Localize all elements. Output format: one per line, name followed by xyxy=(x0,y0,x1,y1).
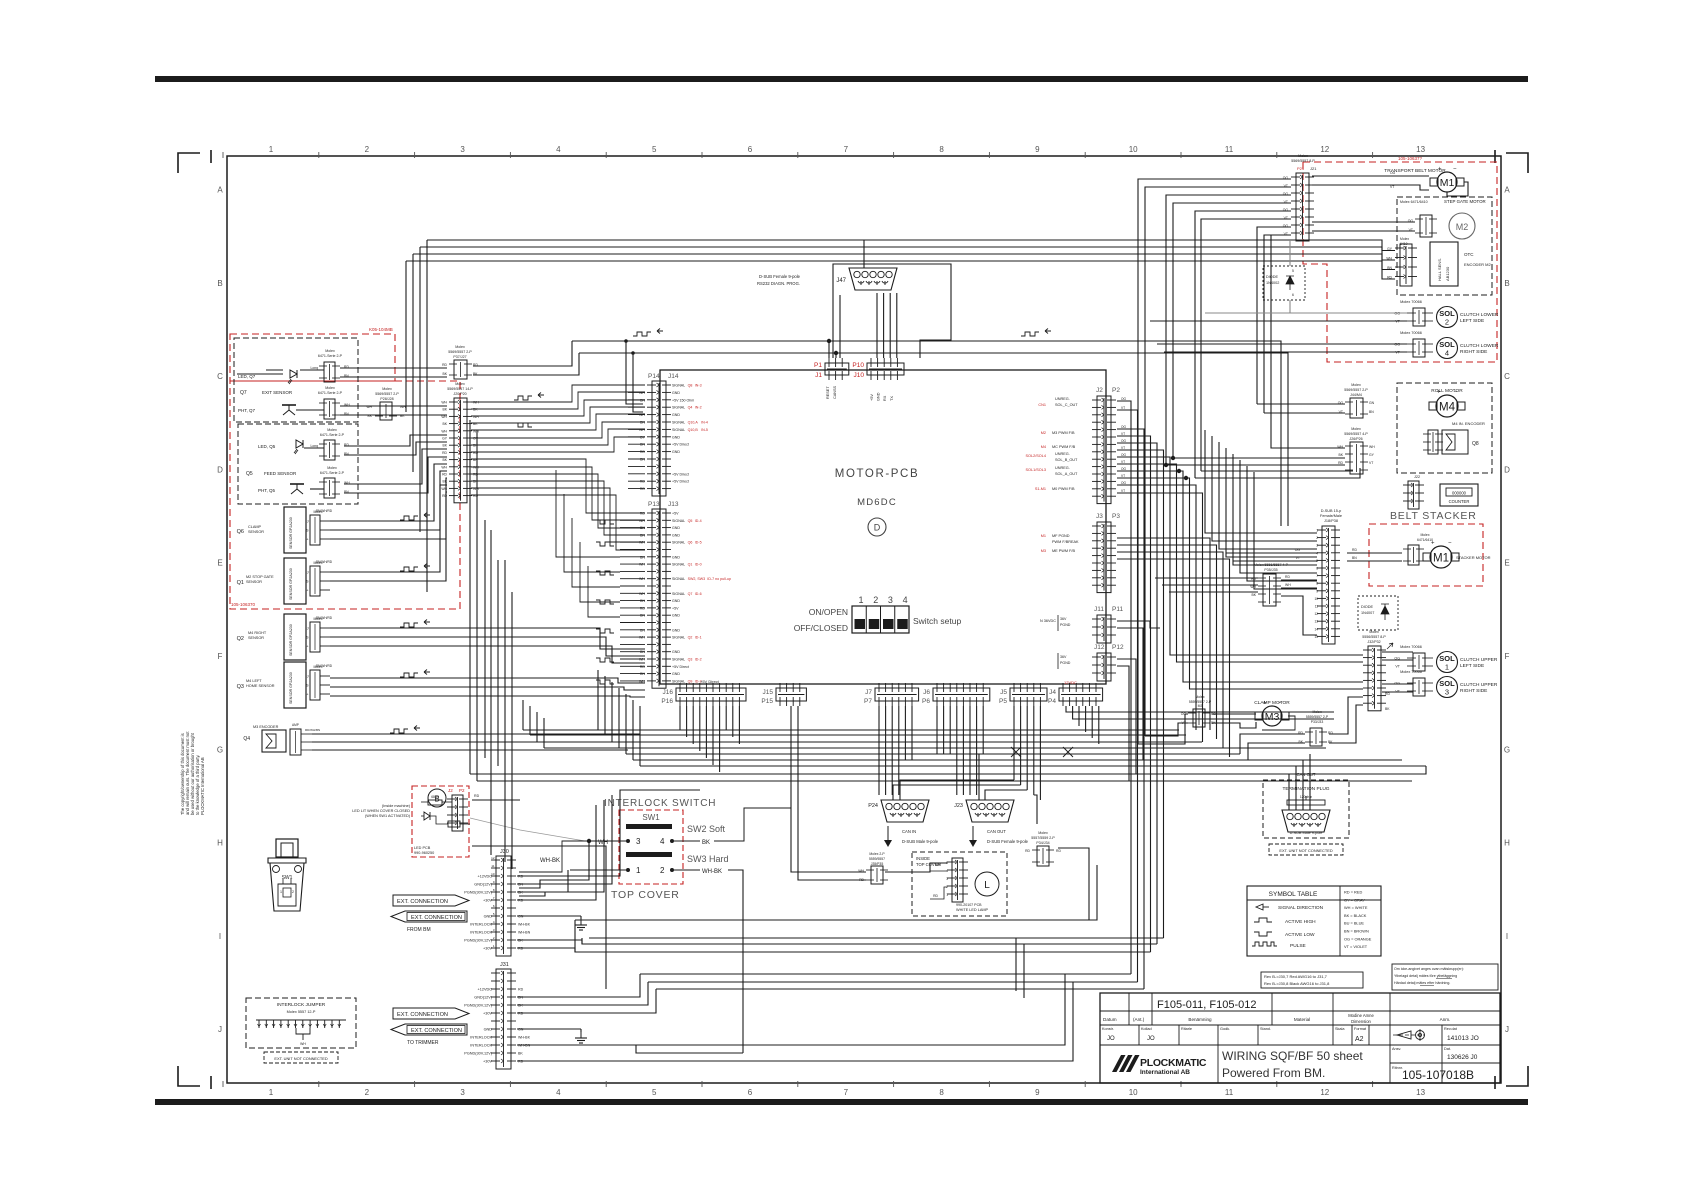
svg-text:RD: RD xyxy=(473,473,478,477)
svg-text:BK = BLACK: BK = BLACK xyxy=(1344,913,1367,918)
svg-text:12: 12 xyxy=(1314,612,1318,616)
ext connection arrows J31 xyxy=(393,1008,469,1019)
svg-text:SOL_C_OUT: SOL_C_OUT xyxy=(1055,403,1078,407)
svg-text:10: 10 xyxy=(1314,597,1318,601)
solenoid SOL2 xyxy=(1437,307,1458,328)
svg-text:Q10,B: Q10,B xyxy=(688,428,699,432)
title block outline xyxy=(1100,993,1500,1083)
svg-text:4: 4 xyxy=(660,837,665,846)
wire Q2 rows east xyxy=(330,628,560,640)
svg-text:Rev B->J30,7 Red AWG16 to J31,: Rev B->J30,7 Red AWG16 to J31,7 xyxy=(1264,974,1328,979)
svg-text:VT: VT xyxy=(1121,460,1125,464)
red dashed belt stacker box xyxy=(1369,524,1483,586)
wire P35 west leads xyxy=(1155,577,1258,579)
wire bus risers to J18 xyxy=(1205,430,1317,533)
svg-text:+5V Direct: +5V Direct xyxy=(672,443,689,447)
svg-text:IN-2: IN-2 xyxy=(695,406,702,410)
svg-text:3: 3 xyxy=(1445,688,1449,697)
svg-text:RD: RD xyxy=(640,512,646,516)
svg-text:SENSOR GP2A230: SENSOR GP2A230 xyxy=(289,568,293,600)
svg-text:Rev.dat: Rev.dat xyxy=(1444,1027,1458,1031)
svg-text:990-960250: 990-960250 xyxy=(414,851,434,855)
svg-text:BK: BK xyxy=(442,372,447,376)
svg-text:RD: RD xyxy=(442,473,447,477)
svg-text:Q2: Q2 xyxy=(688,636,693,640)
svg-text:I: I xyxy=(1506,932,1508,941)
wire stacker M1 leads xyxy=(1347,552,1402,554)
black dashed step gate box xyxy=(1397,197,1492,295)
svg-text:WH: WH xyxy=(639,563,645,567)
svg-text:990-20107 PCB: 990-20107 PCB xyxy=(956,903,982,907)
svg-text:WH: WH xyxy=(639,391,645,395)
svg-text:RD: RD xyxy=(640,606,646,610)
svg-text:Q3: Q3 xyxy=(237,684,244,690)
svg-text:5569/5557 8-P: 5569/5557 8-P xyxy=(1291,159,1315,163)
ext unit not connected label xyxy=(264,1052,338,1063)
svg-text:GND: GND xyxy=(672,650,680,654)
symbol table signal direction xyxy=(1256,904,1263,910)
svg-text:RD: RD xyxy=(1285,575,1290,579)
svg-text:CLUTCH LOWER: CLUTCH LOWER xyxy=(1460,343,1499,349)
svg-text:(Ant.): (Ant.) xyxy=(1133,1017,1145,1022)
svg-text:AB1230: AB1230 xyxy=(1445,266,1450,281)
svg-text:OG = ORANGE: OG = ORANGE xyxy=(1344,936,1372,941)
wire corner drops bottom right xyxy=(1015,938,1017,991)
wire CAN bus routing xyxy=(900,780,1014,800)
ground symbol J31 xyxy=(580,1032,582,1038)
svg-text:BU = BLUE: BU = BLUE xyxy=(1344,921,1364,926)
svg-text:F105-011, F105-012: F105-011, F105-012 xyxy=(1157,999,1256,1011)
svg-text:WH: WH xyxy=(441,401,447,405)
svg-text:+: + xyxy=(1263,701,1267,707)
wire J35 links xyxy=(791,868,866,872)
svg-text:5: 5 xyxy=(652,1088,657,1097)
svg-text:9: 9 xyxy=(1316,589,1318,593)
svg-text:IN-4: IN-4 xyxy=(701,421,708,425)
svg-text:WH: WH xyxy=(639,519,645,523)
svg-text:International AB: International AB xyxy=(1140,1069,1190,1076)
swedish note box xyxy=(1392,964,1498,990)
svg-text:Q6: Q6 xyxy=(237,529,244,535)
svg-text:EXT. CONNECTION: EXT. CONNECTION xyxy=(411,915,462,921)
svg-text:INTERLOCK JUMPER: INTERLOCK JUMPER xyxy=(277,1002,326,1008)
corner mark bottom-right xyxy=(1506,1066,1528,1086)
wire second bus RESET/CANSS xyxy=(572,341,1281,526)
svg-text:1: 1 xyxy=(636,866,641,875)
svg-text:BN/WH/RD: BN/WH/RD xyxy=(316,560,333,564)
corner mark top-right xyxy=(1506,153,1528,173)
svg-text:SIGNAL DIRECTION: SIGNAL DIRECTION xyxy=(1278,905,1324,911)
motor M1 transport xyxy=(1437,172,1457,192)
svg-text:J2: J2 xyxy=(448,788,453,793)
svg-text:3: 3 xyxy=(460,1088,465,1097)
svg-text:ME PWM F/B: ME PWM F/B xyxy=(1052,549,1075,553)
svg-text:ID-2: ID-2 xyxy=(695,658,702,662)
wire termination risers xyxy=(1288,774,1290,810)
svg-text:BN: BN xyxy=(640,458,645,462)
svg-text:Datum: Datum xyxy=(1103,1017,1117,1022)
svg-text:7: 7 xyxy=(844,145,849,154)
wire taps from left verticals to sensor rows xyxy=(427,367,447,369)
svg-text:ENCODER M2: ENCODER M2 xyxy=(1464,262,1491,267)
svg-text:RS232 DIAGN. PROG.: RS232 DIAGN. PROG. xyxy=(757,281,800,286)
svg-text:2: 2 xyxy=(1316,536,1318,540)
svg-text:3: 3 xyxy=(888,595,893,605)
svg-text:PGND(30V,12V): PGND(30V,12V) xyxy=(464,891,492,895)
svg-text:Ritarle: Ritarle xyxy=(1181,1027,1192,1031)
svg-text:FEED SENSOR: FEED SENSOR xyxy=(264,471,297,476)
svg-text:SW1: SW1 xyxy=(642,813,660,822)
svg-text:+5V Direct: +5V Direct xyxy=(672,472,689,476)
svg-text:6471-Serie 2-P: 6471-Serie 2-P xyxy=(320,471,345,475)
svg-text:PULSE: PULSE xyxy=(1290,943,1306,949)
svg-text:7: 7 xyxy=(1316,574,1318,578)
black dashed roll motor box xyxy=(1397,383,1492,473)
svg-text:7: 7 xyxy=(844,1088,849,1097)
svg-text:Q10,A: Q10,A xyxy=(688,421,699,425)
svg-text:SIGNAL: SIGNAL xyxy=(672,519,685,523)
svg-text:BN: BN xyxy=(1352,556,1357,560)
svg-text:Molex 70066: Molex 70066 xyxy=(1400,670,1422,674)
svg-text:VT: VT xyxy=(1121,432,1125,436)
svg-text:9: 9 xyxy=(1035,145,1040,154)
svg-text:J47: J47 xyxy=(836,278,846,284)
svg-text:J: J xyxy=(307,571,309,575)
svg-text:VT: VT xyxy=(1296,556,1300,560)
svg-text:SENSOR: SENSOR xyxy=(248,636,264,640)
svg-text:OG: OG xyxy=(1390,171,1396,175)
svg-text:2: 2 xyxy=(365,145,370,154)
corner mark bottom-left xyxy=(178,1066,200,1086)
svg-text:GND: GND xyxy=(672,672,680,676)
svg-text:Molex: Molex xyxy=(1351,383,1361,387)
svg-text:Molex: Molex xyxy=(327,428,337,432)
ground symbol J30 xyxy=(580,919,582,925)
svg-text:M3: M3 xyxy=(1041,549,1046,553)
svg-text:2: 2 xyxy=(292,890,294,894)
svg-text:GND: GND xyxy=(877,392,881,401)
svg-text:36V: 36V xyxy=(1060,655,1067,659)
wire J18 west leads OG VT xyxy=(1247,552,1317,554)
svg-text:6471-Serie 2-P: 6471-Serie 2-P xyxy=(320,433,345,437)
svg-text:J1: J1 xyxy=(815,372,822,379)
svg-text:BN: BN xyxy=(640,650,645,654)
svg-text:Stand.: Stand. xyxy=(1260,1027,1271,1031)
svg-text:M3: M3 xyxy=(1265,711,1280,723)
svg-text:12: 12 xyxy=(1320,145,1329,154)
svg-text:P1: P1 xyxy=(814,362,822,369)
svg-text:INTERLOCK: INTERLOCK xyxy=(470,1036,492,1040)
svg-text:Switch setup: Switch setup xyxy=(913,616,961,626)
wire J11 J12 stubs xyxy=(1117,621,1160,628)
svg-text:F: F xyxy=(1505,652,1510,661)
svg-text:680R: 680R xyxy=(431,795,439,799)
svg-text:M1: M1 xyxy=(1041,534,1046,538)
svg-text:RD = RED: RD = RED xyxy=(1344,890,1362,895)
svg-text:HALL SENS.: HALL SENS. xyxy=(1437,258,1442,281)
svg-text:141013 JO: 141013 JO xyxy=(1447,1035,1479,1042)
svg-text:P4: P4 xyxy=(1048,698,1056,705)
wire J20 fan to P13 xyxy=(471,459,645,513)
svg-text:P33/J33: P33/J33 xyxy=(1311,720,1324,724)
svg-text:J23: J23 xyxy=(954,803,963,809)
svg-text:G: G xyxy=(1504,745,1510,754)
svg-text:SENSOR GP2A230: SENSOR GP2A230 xyxy=(289,672,293,704)
wire mid bus left risers xyxy=(522,700,524,730)
lid pcb resistor xyxy=(428,800,442,805)
svg-text:10: 10 xyxy=(1129,145,1138,154)
svg-text:PGND(30V,12V): PGND(30V,12V) xyxy=(464,1004,492,1008)
motor-pcb board outline xyxy=(660,370,1106,684)
svg-text:(Inside machine): (Inside machine) xyxy=(382,804,411,808)
svg-text:J10: J10 xyxy=(854,372,865,379)
lid pcb led xyxy=(424,812,430,820)
svg-text:1: 1 xyxy=(946,893,948,897)
svg-text:36V: 36V xyxy=(1060,617,1067,621)
black dashed box exit sensor xyxy=(234,338,358,422)
svg-text:RD: RD xyxy=(442,363,447,367)
svg-text:+5V: +5V xyxy=(672,512,679,516)
svg-text:+: + xyxy=(306,693,308,697)
svg-text:−: − xyxy=(1453,167,1457,173)
svg-text:12VDC: 12VDC xyxy=(1064,680,1077,685)
svg-text:M0 PWM F/B: M0 PWM F/B xyxy=(1052,487,1075,491)
svg-text:RIGHT SIDE: RIGHT SIDE xyxy=(1460,349,1487,355)
wire M1 transport leads xyxy=(1312,175,1429,177)
svg-text:Molex: Molex xyxy=(327,466,337,470)
svg-text:4: 4 xyxy=(1445,349,1449,358)
wire J15 drops to J35 xyxy=(790,706,792,868)
wire J16 drops xyxy=(679,706,681,730)
svg-text:OG: OG xyxy=(1121,425,1126,429)
white led lamp xyxy=(952,858,963,902)
svg-text:E: E xyxy=(1504,559,1509,568)
svg-text:Skala: Skala xyxy=(1335,1027,1345,1031)
svg-text:BK: BK xyxy=(702,840,710,846)
svg-text:J: J xyxy=(307,627,309,631)
svg-text:5559/5557: 5559/5557 xyxy=(869,857,885,861)
svg-text:J4: J4 xyxy=(1049,689,1056,696)
diode 1N4002 box xyxy=(1263,266,1305,300)
svg-text:LED, Q7: LED, Q7 xyxy=(238,374,256,379)
svg-text:EXT. UNIT NOT CONNECTED: EXT. UNIT NOT CONNECTED xyxy=(274,1056,327,1061)
svg-text:Format: Format xyxy=(1354,1027,1367,1031)
svg-text:D-SUB Female 9-pole: D-SUB Female 9-pole xyxy=(759,274,801,279)
wire J30 right fan xyxy=(517,820,555,876)
projection symbol xyxy=(1397,1031,1411,1039)
wire P14 left stubs xyxy=(628,384,645,386)
revision circle D xyxy=(868,518,886,536)
svg-text:M4: M4 xyxy=(1041,445,1046,449)
svg-text:IN-5: IN-5 xyxy=(701,428,708,432)
svg-text:H: H xyxy=(1504,839,1510,848)
wire SW1 to J30 links xyxy=(519,843,589,888)
svg-text:BN: BN xyxy=(640,628,645,632)
svg-text:GND(12V): GND(12V) xyxy=(474,883,492,887)
wire P13 feed staircase xyxy=(556,470,620,557)
svg-text:EXIT SENSOR: EXIT SENSOR xyxy=(262,390,293,395)
svg-text:12: 12 xyxy=(1320,1088,1329,1097)
svg-text:PGND(30V,12V): PGND(30V,12V) xyxy=(464,1052,492,1056)
svg-text:ACTIVE LOW: ACTIVE LOW xyxy=(1285,932,1315,938)
svg-text:+: + xyxy=(1431,541,1435,547)
svg-text:GND: GND xyxy=(484,1028,493,1032)
svg-text:MD6DC: MD6DC xyxy=(857,497,897,508)
wire Q1 rows to J20 xyxy=(330,485,447,572)
svg-text:TO TRIMMER: TO TRIMMER xyxy=(407,1040,439,1046)
wire label WH-BK right xyxy=(674,869,700,871)
svg-text:5569/5557 14-P: 5569/5557 14-P xyxy=(447,387,473,391)
svg-text:SENSOR GP2A230: SENSOR GP2A230 xyxy=(289,624,293,656)
interlock switch SW1 physical xyxy=(276,839,298,857)
svg-text:BK: BK xyxy=(442,480,447,484)
red dashed sensor group box xyxy=(230,381,460,609)
svg-text:Godk.: Godk. xyxy=(1220,1027,1230,1031)
wire J3/P3 fan east xyxy=(1117,538,1210,730)
wire Q6 rows to J20 xyxy=(330,464,447,521)
svg-text:VT: VT xyxy=(1121,489,1125,493)
svg-text:CLAMP: CLAMP xyxy=(248,525,262,529)
svg-text:J: J xyxy=(307,520,309,524)
svg-text:LED LIT WHEN COVER CLOSED: LED LIT WHEN COVER CLOSED xyxy=(352,809,410,813)
svg-text:WHITE LED LAMP: WHITE LED LAMP xyxy=(956,908,989,912)
wire P13 left stubs xyxy=(620,512,645,514)
svg-text:Molex: Molex xyxy=(455,345,465,349)
svg-text:Ansv.: Ansv. xyxy=(1392,1047,1401,1051)
svg-text:−: − xyxy=(1278,701,1282,707)
svg-text:OFF/CLOSED: OFF/CLOSED xyxy=(794,623,848,633)
wire J31 long rails xyxy=(517,974,640,989)
wire J30 long rails xyxy=(517,948,575,952)
svg-text:(WHEN SW1 ACTIVATED): (WHEN SW1 ACTIVATED) xyxy=(365,814,411,818)
svg-text:Q9: Q9 xyxy=(688,679,693,683)
svg-text:D-SUB 15-p: D-SUB 15-p xyxy=(1321,509,1341,513)
svg-text:ACTIVE HIGH: ACTIVE HIGH xyxy=(1285,919,1316,925)
svg-text:INSIDE: INSIDE xyxy=(916,856,930,861)
svg-text:+: + xyxy=(306,645,308,649)
svg-text:OG: OG xyxy=(1121,439,1126,443)
svg-text:RIGHT SIDE: RIGHT SIDE xyxy=(1460,688,1487,694)
wire top bus left verticals xyxy=(426,240,428,592)
svg-text:AMP: AMP xyxy=(292,723,299,727)
svg-text:RD: RD xyxy=(640,487,646,491)
pulse glyphs on second bus xyxy=(633,332,651,336)
svg-text:SIGNAL: SIGNAL xyxy=(672,577,685,581)
svg-text:M2 STOP GATE: M2 STOP GATE xyxy=(246,575,274,579)
svg-text:VT: VT xyxy=(1395,665,1400,669)
wire mid bus horizontals xyxy=(523,729,1179,731)
svg-text:13: 13 xyxy=(1416,145,1425,154)
svg-text:GND: GND xyxy=(484,915,493,919)
svg-text:Q1: Q1 xyxy=(688,563,693,567)
svg-text:SIGNAL: SIGNAL xyxy=(672,428,685,432)
svg-text:1: 1 xyxy=(269,1088,274,1097)
svg-text:RD: RD xyxy=(1056,849,1061,853)
svg-text:J11: J11 xyxy=(1094,606,1104,613)
svg-text:5569/5557 2-P: 5569/5557 2-P xyxy=(448,350,472,354)
svg-text:M3 ENCODER: M3 ENCODER xyxy=(253,725,279,729)
wire rails second tier xyxy=(575,865,1097,920)
wire M2 leads xyxy=(1312,221,1415,223)
svg-text:1: 1 xyxy=(280,890,282,894)
svg-text:Molex 2-P: Molex 2-P xyxy=(869,852,885,856)
svg-text:J5: J5 xyxy=(1000,689,1007,696)
svg-text:P35/J35: P35/J35 xyxy=(1264,568,1277,572)
svg-text:WH: WH xyxy=(639,592,645,596)
top border bar xyxy=(155,76,1528,82)
svg-text:Dat.: Dat. xyxy=(1444,1047,1451,1051)
svg-text:GND: GND xyxy=(672,413,680,417)
svg-text:3: 3 xyxy=(636,837,641,846)
svg-text:WH: WH xyxy=(441,465,447,469)
black dashed box feed sensor xyxy=(238,424,358,504)
red dashed SW1 box xyxy=(619,810,683,884)
svg-text:SIGNAL: SIGNAL xyxy=(672,541,685,545)
svg-text:6: 6 xyxy=(748,1088,753,1097)
svg-text:1N4007: 1N4007 xyxy=(1361,611,1374,615)
svg-text:+30V: +30V xyxy=(483,899,492,903)
wire from lid pcb xyxy=(472,799,520,801)
svg-text:RD: RD xyxy=(518,988,524,992)
svg-text:11: 11 xyxy=(1225,145,1234,154)
svg-text:PWM F/BREAK: PWM F/BREAK xyxy=(1052,540,1079,544)
svg-text:SIGNAL: SIGNAL xyxy=(672,563,685,567)
svg-text:PHT, Q5: PHT, Q5 xyxy=(258,488,276,493)
svg-text:RD: RD xyxy=(1352,548,1357,552)
encoder Q8 xyxy=(1442,430,1468,454)
svg-text:5569/5557 4-P: 5569/5557 4-P xyxy=(1344,432,1368,436)
svg-text:GND: GND xyxy=(672,435,680,439)
wire WH-BK drop from SW to J31 xyxy=(517,870,743,1061)
svg-text:P24: P24 xyxy=(868,803,878,809)
svg-text:WIRING SQF/BF 50 sheet: WIRING SQF/BF 50 sheet xyxy=(1222,1049,1363,1063)
svg-text:TOP COVER: TOP COVER xyxy=(611,889,680,901)
wire J21 verticals to east components xyxy=(1138,714,1188,744)
wire J47 to frame top xyxy=(863,240,865,268)
svg-text:J31: J31 xyxy=(500,962,509,968)
wire left sensor rows xyxy=(300,369,324,371)
solenoid SOL3 xyxy=(1437,677,1458,698)
svg-text:M4 LEFT: M4 LEFT xyxy=(246,679,262,683)
termination ext unit label xyxy=(1269,844,1343,855)
svg-text:Q8: Q8 xyxy=(1472,441,1479,447)
svg-text:11: 11 xyxy=(491,864,494,868)
svg-text:OG: OG xyxy=(1121,481,1126,485)
wire SOL2 leads xyxy=(1205,312,1407,314)
svg-text:Dimension: Dimension xyxy=(1351,1019,1371,1024)
svg-text:SW3 Hard: SW3 Hard xyxy=(687,854,729,864)
svg-text:Molex 70066: Molex 70066 xyxy=(1400,645,1422,649)
wire P27 risers to second bus xyxy=(473,341,572,366)
svg-text:SYMBOL TABLE: SYMBOL TABLE xyxy=(1269,891,1318,898)
svg-text:LED PCB: LED PCB xyxy=(414,846,431,850)
svg-text:11: 11 xyxy=(1225,1088,1234,1097)
svg-text:UNREG.: UNREG. xyxy=(1055,452,1070,456)
svg-text:1: 1 xyxy=(1316,529,1318,533)
drawing frame xyxy=(227,156,1501,1083)
svg-text:RD: RD xyxy=(640,450,646,454)
svg-text:RX: RX xyxy=(883,395,887,401)
svg-text:P11: P11 xyxy=(1112,606,1123,613)
svg-text:P34/J34: P34/J34 xyxy=(1036,841,1049,845)
svg-text:FROM BM: FROM BM xyxy=(407,927,431,933)
svg-text:J3: J3 xyxy=(1096,513,1103,520)
svg-text:PHT, Q7: PHT, Q7 xyxy=(238,408,256,413)
svg-text:BK: BK xyxy=(1385,707,1390,711)
svg-text:J13: J13 xyxy=(668,501,679,508)
svg-text:JO: JO xyxy=(1107,1036,1115,1042)
wire Q3 rows east xyxy=(330,678,645,683)
